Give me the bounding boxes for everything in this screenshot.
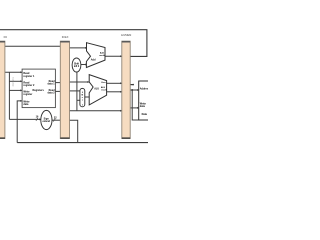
wire PC+4 ID/EX to Add	[70, 47, 87, 49]
U mux ALUSrc	[80, 88, 85, 106]
svg-text:extend: extend	[42, 120, 50, 123]
svg-text:Add: Add	[91, 59, 96, 62]
svg-text:ALU: ALU	[101, 86, 106, 89]
svg-text:ALU: ALU	[94, 87, 99, 90]
svg-text:1: 1	[82, 104, 83, 106]
wire WB bottom line	[17, 142, 148, 144]
wire ALU result bypass under memory	[132, 90, 148, 120]
svg-text:Shift: Shift	[74, 63, 79, 66]
register EX/MEM	[122, 41, 130, 139]
svg-text:Address: Address	[140, 88, 148, 91]
wire lower pass to EX/MEM	[70, 110, 122, 112]
svg-text:ID/EX: ID/EX	[62, 35, 69, 39]
U adder Add	[86, 43, 105, 68]
wire instruction fan-out	[5, 72, 41, 119]
wire branch-target top line	[0, 30, 147, 57]
svg-text:data 1: data 1	[48, 82, 56, 85]
svg-text:Data: Data	[142, 113, 148, 116]
svg-text:Zero: Zero	[101, 81, 106, 84]
svg-text:ID: ID	[4, 35, 8, 39]
wire shift out to Add	[81, 64, 87, 66]
arrowheads	[20, 47, 139, 121]
register IF/ID (cut at left edge)	[0, 41, 5, 139]
svg-text:left 2: left 2	[74, 65, 80, 68]
svg-text:data: data	[23, 103, 29, 106]
svg-text:register 2: register 2	[23, 84, 35, 87]
wire immediate after ID/EX down to WB line	[70, 120, 78, 142]
U shift-left-2	[72, 58, 81, 72]
wire sign-extend out to ID/EX	[51, 119, 60, 121]
svg-text:EX/MEM: EX/MEM	[121, 33, 132, 37]
wire shift riser	[76, 72, 78, 111]
wire Zero to EX/MEM	[107, 82, 122, 84]
U ALU	[89, 75, 106, 105]
wire read data 2	[55, 90, 60, 92]
svg-text:Instruction: Instruction	[12, 77, 15, 87]
wire ALU result to EX/MEM	[107, 91, 122, 93]
svg-text:0: 0	[82, 92, 83, 94]
block registers U-Registers	[22, 69, 55, 108]
wire read data 1	[55, 82, 60, 84]
wire address to memory	[130, 89, 138, 91]
svg-text:Registers: Registers	[32, 89, 44, 92]
U sign-extend	[41, 110, 52, 129]
wire Zero stub right of EX/MEM	[130, 84, 133, 86]
wire riser to mux input	[77, 99, 80, 101]
wire mux out to ALU	[85, 96, 89, 98]
svg-text:Add: Add	[100, 52, 105, 55]
svg-text:result: result	[101, 89, 107, 92]
svg-text:register: register	[23, 93, 32, 96]
register ID/EX	[60, 41, 69, 139]
svg-text:result: result	[99, 54, 105, 57]
node junction on address wire	[131, 89, 133, 91]
wire WB riser to Write data	[17, 101, 22, 143]
svg-text:register 1: register 1	[23, 75, 35, 78]
wire write data to memory	[130, 107, 138, 109]
node 16 bus tick	[36, 118, 38, 121]
wire Add result to EX/MEM	[105, 55, 122, 57]
svg-text:data: data	[140, 105, 146, 108]
node 32 bus tick	[53, 119, 55, 122]
svg-text:data 2: data 2	[48, 91, 56, 94]
block data memory (cut at right edge)	[139, 81, 151, 120]
wire PC+4 IF/ID to ID/EX	[5, 45, 60, 47]
